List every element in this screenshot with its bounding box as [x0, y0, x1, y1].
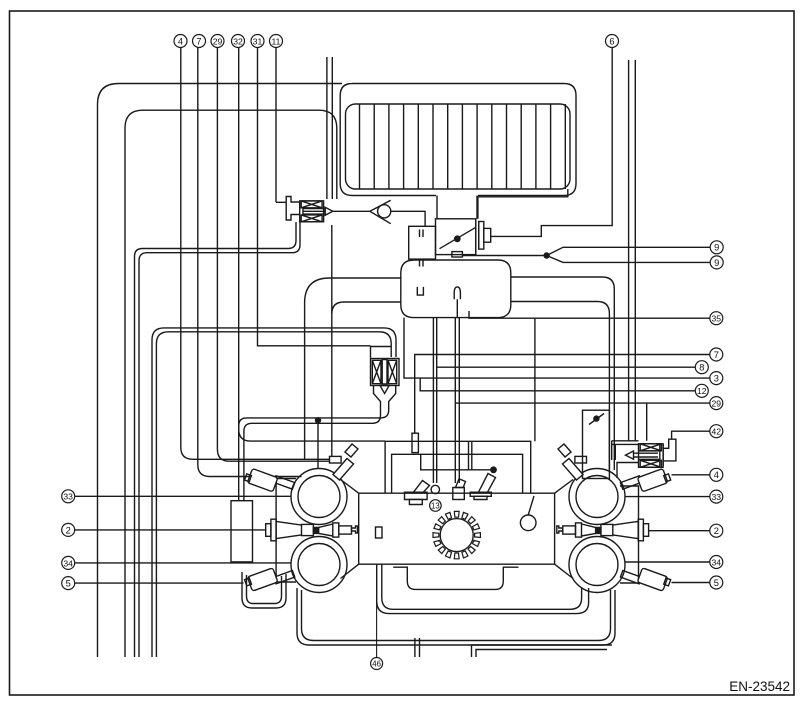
svg-text:29: 29 [712, 399, 722, 409]
leader label 33 left [75, 495, 292, 497]
solenoid SV3 coil bottom [640, 460, 661, 467]
frame wire middle sensor pair [455, 299, 459, 483]
svg-text:35: 35 [712, 314, 722, 324]
injector cyl4 tip [664, 578, 671, 586]
node 5 right [710, 576, 723, 589]
EGR solenoid SV2 body [371, 359, 400, 386]
svg-text:3: 3 [714, 374, 719, 384]
svg-text:29: 29 [213, 36, 223, 46]
block chamfer top-left [341, 480, 359, 494]
wire manifold left lower port [332, 302, 401, 314]
svg-text:34: 34 [712, 557, 722, 567]
svg-text:34: 34 [63, 558, 73, 568]
sensor right arm [479, 474, 496, 493]
fan wire to label 29 right then down to solenoid SV3 [455, 403, 710, 478]
svg-text:7: 7 [714, 350, 719, 360]
solenoid SV1 inlet bracket [286, 197, 300, 221]
wire junction to label 9 upper [547, 247, 711, 255]
wire hose pair B lower [156, 332, 391, 657]
node 34 left [62, 556, 75, 569]
throttle flange double line [476, 219, 479, 255]
radiator core body [346, 104, 571, 189]
crank gear teeth [433, 511, 480, 558]
throttle bottom port [452, 252, 463, 257]
hose header to SV3 lower [612, 441, 639, 460]
svg-text:9: 9 [714, 243, 719, 253]
solenoid SV2 coil right [388, 360, 397, 383]
solenoid SV2 coil left [372, 360, 381, 383]
sensor left body [405, 492, 428, 499]
sensor 13 circle [431, 485, 439, 493]
injector cyl4 tube [620, 570, 641, 583]
fan wire to label 7 right [415, 355, 710, 434]
node 32 top [232, 35, 245, 48]
node 11 top [270, 35, 283, 48]
throttle body left chamber [409, 226, 436, 259]
hose manifold right upper to engine [511, 302, 610, 471]
node 9 upper [710, 241, 723, 254]
wire junction down to engine [317, 420, 319, 469]
wire manifold left to engine [305, 278, 401, 459]
leader label 34 right [625, 561, 710, 563]
block chamfer top-right [555, 480, 573, 494]
injector cyl2 tube [620, 476, 641, 489]
svg-text:2: 2 [66, 525, 71, 535]
sensor mid body [453, 488, 465, 500]
node 4 right [710, 468, 723, 481]
wire label 29 leader top [217, 48, 329, 462]
injector cyl1 body [247, 469, 278, 492]
wire solenoid outlet to check valve [333, 210, 370, 212]
sensor mid arm [456, 479, 466, 488]
svg-text:2: 2 [714, 526, 719, 536]
leader label 2 right [649, 530, 710, 532]
hose big loop inner [302, 590, 611, 641]
leader label 5 right [672, 582, 710, 584]
node 34 right [710, 556, 723, 569]
sensor left arm [414, 481, 430, 493]
fan wire to label 12 [420, 378, 695, 391]
mount box valve dot [593, 415, 599, 421]
injector cyl3 tube [274, 570, 295, 583]
node 7 right [710, 348, 723, 361]
cylinder 4 inner [576, 544, 618, 586]
wire manifold right port down to sensor frame [534, 319, 536, 442]
node 42 [710, 425, 723, 438]
crank gear circle [440, 519, 473, 552]
svg-text:4: 4 [178, 36, 183, 46]
wire left outer hose from bottom to radiator top [98, 84, 343, 658]
wire label 11 leader end into bracket [276, 201, 286, 203]
block chamfer bottom-left [341, 564, 359, 578]
spark plug cyl1 stack [333, 459, 354, 481]
svg-text:31: 31 [253, 36, 263, 46]
throttle body right chamber [436, 219, 476, 255]
node 5 left [62, 577, 75, 590]
injector cyl3 tip [245, 578, 252, 586]
solenoid SV3 plunger needle [634, 451, 660, 459]
wire throttle port to junction of 9 labels [462, 255, 546, 257]
sensor right body [470, 492, 491, 496]
svg-text:EN-23542: EN-23542 [729, 679, 790, 694]
injector cyl1 tip [245, 474, 252, 482]
solenoid SV3 arrow left [626, 451, 634, 459]
sensor frame outer [385, 441, 531, 493]
injector cyl4 body [637, 568, 668, 591]
hose pair manifold bottom to sensor 13 [433, 318, 436, 483]
hose 46 elbow upper [382, 564, 582, 609]
node 12 [695, 384, 708, 397]
solenoid SV3 right bracket [663, 439, 676, 461]
manifold port arch [454, 287, 460, 299]
mount box valve lever [589, 414, 604, 425]
check valve ball [378, 205, 391, 218]
svg-text:42: 42 [712, 427, 722, 437]
leader label 34 left [75, 562, 292, 564]
wire label 35 leader [469, 311, 710, 318]
fan wire to label 3 [404, 318, 710, 379]
node 2 left [62, 523, 75, 536]
node 33 left [62, 490, 75, 503]
wire second left hose to purge solenoid inlet [125, 110, 337, 657]
block chamfer bottom-right [555, 564, 573, 578]
solenoid SV1 plunger bar [303, 209, 325, 215]
svg-text:5: 5 [714, 578, 719, 588]
spark plug cyl2 stack [563, 459, 584, 481]
wire junction to label 9 lower [547, 256, 711, 263]
cylinder 3 inner [298, 544, 340, 586]
svg-text:13: 13 [431, 502, 440, 511]
solenoid SV3 flange [660, 444, 663, 466]
wire hose pair B upper: left bundle to EGR solenoid [152, 328, 396, 657]
throttle outlet connector [479, 222, 484, 250]
fuel damper right assembly [643, 524, 648, 537]
svg-text:7: 7 [196, 36, 201, 46]
manifold port u [417, 287, 423, 295]
solenoid SV1 coil top [301, 201, 322, 208]
hose 46 elbow lower [377, 564, 589, 614]
solenoid SV1 arrow [325, 207, 333, 215]
throttle plate diagonal [440, 227, 476, 248]
svg-text:11: 11 [272, 36, 281, 46]
leader label 5 left [75, 582, 244, 584]
node 29 right [710, 397, 723, 410]
svg-text:6: 6 [609, 36, 614, 46]
wire label 31 vertical leader [258, 48, 371, 346]
dipstick cap [376, 527, 383, 538]
wire hose pair A upper: solenoid outlet to left bundle [135, 222, 297, 657]
engine block [359, 493, 555, 564]
frame component rect [412, 433, 418, 452]
cylinder 3 outer [291, 537, 347, 593]
solenoid SV2 plunger [382, 360, 387, 385]
leader label 33 right [625, 496, 710, 498]
solenoid SV3 body [639, 444, 664, 468]
hose stub pair bottom center [415, 638, 420, 657]
wire label 42 leader [672, 431, 710, 439]
node 3 [710, 372, 723, 385]
svg-text:33: 33 [63, 492, 73, 502]
hose U left bottom inner [247, 575, 282, 604]
node 29 top [211, 35, 224, 48]
injector cyl2 tip [664, 474, 671, 482]
injector cyl1 tube [274, 476, 295, 489]
knock sensor wire [528, 496, 534, 515]
svg-text:8: 8 [699, 363, 704, 373]
left side plate [276, 479, 296, 583]
EGR solenoid SV2 bracket [371, 347, 391, 358]
right side plate [620, 486, 639, 583]
oil pan tray [393, 567, 518, 589]
svg-text:12: 12 [697, 386, 707, 396]
hose stub pair right vertical run to engine [629, 60, 636, 441]
hose manifold right lower to engine [511, 277, 615, 470]
hose stub pair bottom right with bend [472, 645, 613, 657]
cylinder 2 inner [576, 476, 618, 518]
hose U left bottom outer [242, 572, 286, 608]
svg-text:9: 9 [714, 258, 719, 268]
injector cyl3 body [247, 568, 278, 591]
mount box right [583, 410, 610, 478]
node 35 [710, 312, 723, 325]
node 8 [695, 361, 708, 374]
purge solenoid SV1 body [300, 201, 324, 222]
leader label 2 left [75, 529, 266, 531]
node 9 lower [710, 256, 723, 269]
solenoid SV3 coil top [640, 444, 661, 451]
wire label 32 leader top to sensor frame [239, 48, 385, 442]
wire label 46 leader [376, 601, 378, 658]
node 6 top [606, 35, 619, 48]
node 46 [371, 658, 383, 670]
solenoid SV2 outlet funnel [374, 386, 396, 404]
sensor frame inner [392, 454, 523, 493]
radiator outer shroud [340, 84, 576, 196]
svg-text:5: 5 [66, 579, 71, 589]
junction dot 9 [543, 252, 549, 258]
wire label 11 leader top [275, 48, 277, 203]
radiator core fins [360, 104, 566, 189]
node 7 top [193, 35, 206, 48]
svg-text:46: 46 [372, 660, 381, 669]
check valve lines [370, 200, 391, 223]
node 2 right [710, 524, 723, 537]
junction dot hose [315, 417, 321, 423]
canister [231, 501, 253, 562]
wire hose pair A lower [139, 222, 300, 657]
frame wire right vertical [469, 441, 472, 470]
hose big loop outer [297, 588, 615, 645]
wire throttle connector to label 6 [491, 48, 613, 237]
svg-text:32: 32 [233, 36, 243, 46]
frame wire to ignition dot [421, 454, 494, 470]
hose EGR solenoid to canister upper [239, 403, 389, 501]
cylinder 1 outer [291, 469, 347, 525]
svg-text:4: 4 [714, 470, 719, 480]
cylinder 2 outer [569, 469, 625, 525]
node 33 right [710, 490, 723, 503]
node 4 top [174, 35, 187, 48]
solenoid SV2 arrow down [380, 386, 389, 394]
hose stub pair through throttle to manifold [420, 230, 424, 267]
duct radiator to throttle body [437, 196, 477, 219]
wire label 7 leader top [198, 48, 302, 477]
knock sensor circle [520, 515, 536, 531]
fuel damper left assembly [266, 524, 271, 537]
wire label 4 leader top [181, 48, 330, 460]
wire plug vertical [331, 225, 333, 456]
ignition dot [490, 466, 497, 473]
solenoid SV1 coil bottom [301, 215, 322, 222]
throttle shaft dot [454, 235, 461, 242]
fan wire to label 8 [437, 366, 695, 368]
cylinder 1 inner [298, 476, 340, 518]
hose stub pair left of radiator [327, 57, 332, 199]
wire check valve to throttle body [391, 211, 425, 226]
hose EGR solenoid to canister lower [244, 403, 381, 501]
wire radiator right to throttle top [478, 189, 568, 219]
cylinder 4 outer [569, 537, 625, 593]
label circles [62, 35, 724, 670]
node 13 [430, 500, 442, 512]
injector cyl2 body [637, 469, 668, 492]
leader label 4 right [672, 474, 710, 476]
node 31 top [251, 35, 264, 48]
hose header to SV3 upper [612, 440, 639, 442]
intake manifold body [401, 260, 511, 318]
svg-text:33: 33 [712, 492, 722, 502]
